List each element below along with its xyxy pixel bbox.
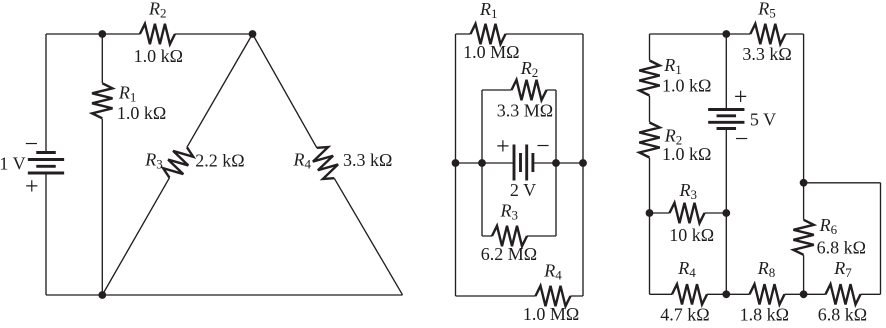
svg-text:−: − xyxy=(735,127,749,153)
svg-text:5 V: 5 V xyxy=(750,109,776,129)
svg-text:1.8 kΩ: 1.8 kΩ xyxy=(740,305,789,325)
svg-text:6.2 MΩ: 6.2 MΩ xyxy=(481,244,537,264)
svg-text:1.0 kΩ: 1.0 kΩ xyxy=(117,103,166,123)
svg-text:1.0 kΩ: 1.0 kΩ xyxy=(662,76,711,96)
svg-text:+: + xyxy=(25,174,39,200)
svg-text:2 V: 2 V xyxy=(510,180,536,200)
svg-text:1.0 MΩ: 1.0 MΩ xyxy=(463,42,519,62)
svg-text:3.3 kΩ: 3.3 kΩ xyxy=(343,150,392,170)
svg-text:6.8 kΩ: 6.8 kΩ xyxy=(818,305,867,325)
svg-text:3.3 kΩ: 3.3 kΩ xyxy=(742,44,791,64)
svg-text:+: + xyxy=(734,84,748,110)
svg-text:−: − xyxy=(536,134,550,160)
svg-text:4.7 kΩ: 4.7 kΩ xyxy=(660,305,709,325)
svg-text:1.0 kΩ: 1.0 kΩ xyxy=(134,46,183,66)
svg-text:1.0 MΩ: 1.0 MΩ xyxy=(523,304,579,324)
svg-text:2.2 kΩ: 2.2 kΩ xyxy=(195,150,244,170)
svg-text:3.3 MΩ: 3.3 MΩ xyxy=(497,100,553,120)
svg-text:−: − xyxy=(25,131,39,157)
svg-text:1 V: 1 V xyxy=(0,154,26,174)
svg-text:1.0 kΩ: 1.0 kΩ xyxy=(662,144,711,164)
svg-text:10 kΩ: 10 kΩ xyxy=(669,225,714,245)
svg-text:6.8 kΩ: 6.8 kΩ xyxy=(817,238,866,258)
svg-text:+: + xyxy=(496,134,510,160)
